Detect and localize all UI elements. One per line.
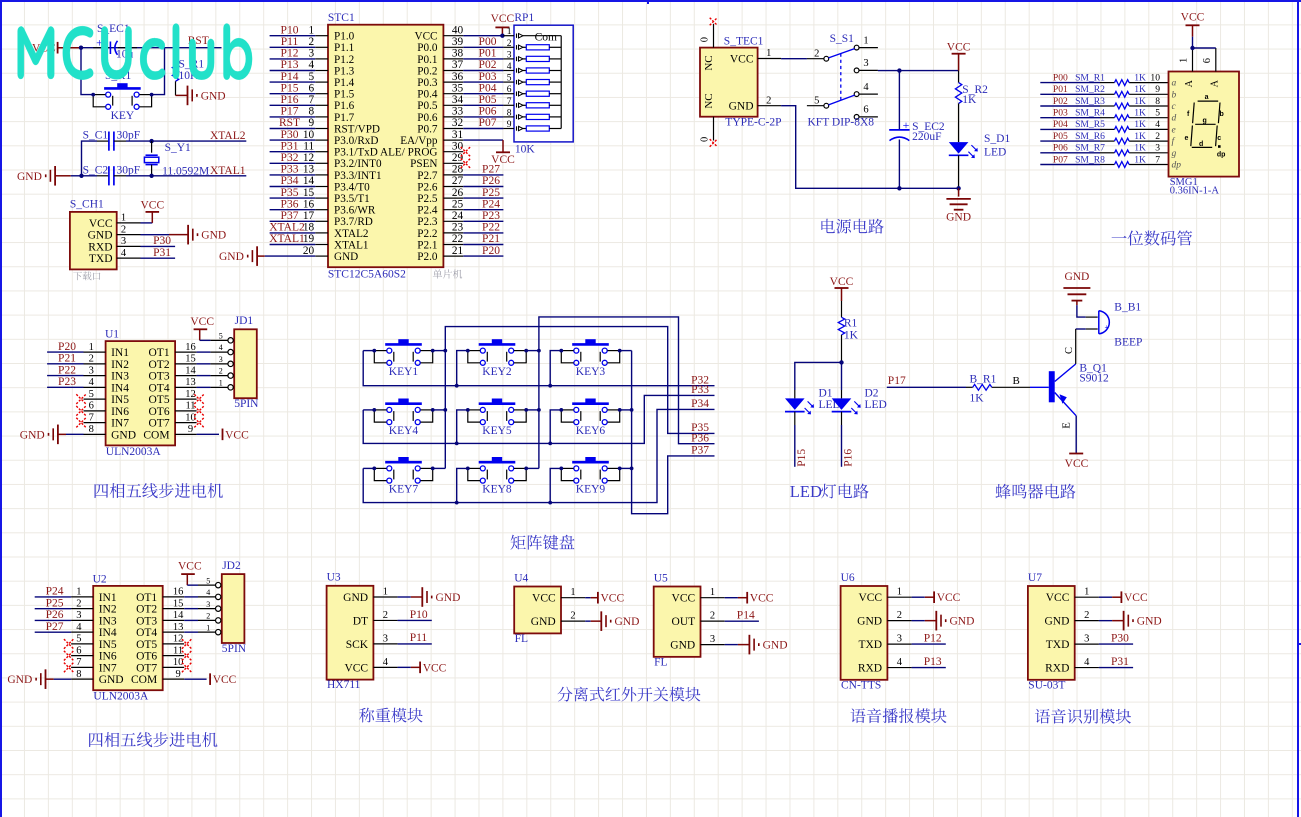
svg-text:GND: GND	[615, 616, 640, 628]
svg-text:VCC: VCC	[178, 561, 202, 573]
svg-text:P3.3/INT1: P3.3/INT1	[334, 170, 382, 182]
label danpianji	[433, 269, 462, 278]
svg-text:P1.0: P1.0	[334, 31, 355, 43]
svg-text:GND: GND	[343, 592, 368, 604]
net label XTAL1	[269, 233, 305, 245]
svg-text:4: 4	[219, 343, 223, 352]
wire XTAL2	[126, 140, 246, 142]
connector JD2 pins	[198, 576, 221, 635]
svg-text:dp: dp	[1217, 151, 1226, 158]
svg-text:P31: P31	[153, 247, 171, 259]
svg-text:4: 4	[863, 82, 869, 93]
svg-text:3: 3	[76, 610, 81, 621]
wire STC pin 2	[270, 46, 316, 48]
ground GND (U6 pin2)	[912, 611, 975, 631]
wire U1 in4	[47, 386, 83, 388]
net label P31	[281, 140, 299, 152]
ground GND (U2)	[7, 669, 53, 689]
svg-text:39: 39	[452, 36, 464, 48]
svg-text:OT4: OT4	[149, 382, 170, 394]
svg-text:22: 22	[452, 233, 464, 245]
wire STC pin 12	[270, 162, 316, 164]
capacitor S_C1 30pF	[83, 130, 141, 151]
net label P02	[479, 59, 497, 71]
svg-text:XTAL2: XTAL2	[269, 222, 305, 234]
svg-text:P1.7: P1.7	[334, 112, 355, 124]
svg-text:c: c	[1217, 135, 1221, 142]
svg-text:38: 38	[452, 48, 464, 60]
svg-text:6: 6	[863, 105, 868, 116]
wire U7 pin3	[1099, 643, 1133, 645]
wire U2 in1	[35, 596, 71, 598]
svg-text:GND: GND	[7, 674, 32, 686]
svg-text:2: 2	[219, 367, 223, 376]
svg-text:1K: 1K	[1134, 96, 1146, 107]
svg-text:P10: P10	[410, 609, 428, 621]
wire U7 pin4	[1099, 667, 1133, 669]
svg-text:1: 1	[897, 587, 902, 598]
svg-text:7: 7	[507, 97, 512, 107]
net label P21	[58, 353, 76, 365]
svg-text:VCC: VCC	[225, 429, 249, 441]
svg-text:SM_R2: SM_R2	[1075, 84, 1105, 95]
module U3 pins	[343, 587, 397, 675]
svg-text:RXD: RXD	[858, 662, 882, 674]
svg-text:OT5: OT5	[136, 639, 157, 651]
svg-text:5: 5	[507, 74, 512, 84]
wire P30	[141, 245, 176, 247]
no-connect pin 29	[461, 159, 471, 169]
svg-text:7: 7	[89, 412, 94, 423]
module U6 pins	[857, 587, 911, 675]
svg-text:4: 4	[897, 657, 903, 668]
svg-text:1K: 1K	[962, 94, 977, 106]
net label P23	[482, 210, 500, 222]
no-connect U1 pin 5	[76, 394, 86, 404]
label xiazaikou	[73, 272, 100, 281]
svg-text:6: 6	[89, 401, 94, 412]
wire STC pin 13	[270, 174, 316, 176]
module U5 box	[654, 572, 701, 656]
svg-text:SM_R5: SM_R5	[1075, 119, 1105, 130]
svg-text:5PIN: 5PIN	[234, 398, 259, 410]
svg-text:KEY2: KEY2	[482, 366, 512, 378]
net label P07 (seg)	[1053, 154, 1068, 165]
svg-text:13: 13	[185, 377, 196, 388]
svg-text:30: 30	[452, 140, 464, 152]
net label P11	[281, 36, 299, 48]
title dianyuandianlu	[821, 219, 883, 234]
power VCC (power circuit)	[947, 42, 971, 71]
svg-text:1: 1	[507, 27, 512, 37]
display SMG1 top pins	[1179, 48, 1221, 87]
net label P06 (seg)	[1053, 143, 1068, 154]
ic U1 pins	[84, 342, 197, 441]
diode D1 LED	[785, 388, 841, 415]
svg-text:1: 1	[710, 587, 715, 598]
resistor SM_R6 1K	[1075, 131, 1146, 144]
svg-text:IN4: IN4	[111, 382, 129, 394]
svg-text:1: 1	[219, 378, 223, 387]
power VCC (S_CH1)	[140, 200, 164, 223]
svg-text:COM: COM	[143, 429, 169, 441]
power VCC (U5 pin1)	[725, 592, 774, 605]
wire STC pin 37	[463, 70, 503, 72]
svg-text:b: b	[1172, 90, 1177, 100]
wire STC pin 10	[270, 139, 316, 141]
net label P00 (seg)	[1053, 72, 1068, 83]
net label P33	[281, 164, 299, 176]
svg-text:P31: P31	[281, 140, 299, 152]
sheet border left	[0, 0, 2, 817]
svg-text:P1.3: P1.3	[334, 65, 355, 77]
svg-text:31: 31	[452, 129, 463, 141]
no-connect U2 pin 5	[64, 639, 74, 649]
svg-text:P22: P22	[58, 364, 76, 376]
svg-text:23: 23	[452, 222, 464, 234]
no-connect U2 pin 11	[182, 651, 192, 661]
wire seg row dp	[1040, 164, 1168, 166]
connector S_TEC1 box	[700, 36, 764, 117]
label CN-TTS	[841, 679, 881, 691]
net label P37	[281, 210, 299, 222]
svg-text:1: 1	[766, 48, 771, 59]
svg-text:3: 3	[710, 634, 715, 645]
svg-text:P3.0/RxD: P3.0/RxD	[334, 135, 378, 147]
svg-text:IN1: IN1	[111, 347, 129, 359]
node col1-k4	[443, 408, 447, 412]
svg-text:RXD: RXD	[1045, 662, 1069, 674]
svg-text:LED: LED	[984, 146, 1006, 158]
wire STC pin 11	[270, 151, 316, 153]
svg-text:P0.2: P0.2	[417, 65, 437, 77]
svg-text:1K: 1K	[1134, 119, 1146, 130]
svg-text:GND: GND	[950, 616, 975, 628]
svg-text:33: 33	[452, 106, 464, 118]
wire U2 gnd	[54, 678, 72, 680]
svg-text:KEY9: KEY9	[576, 484, 606, 496]
svg-text:P01: P01	[479, 48, 497, 60]
net label P27	[46, 621, 64, 633]
wire U2 ot1	[184, 596, 198, 598]
power VCC (EA)	[491, 140, 515, 166]
power VCC (JD1)	[190, 316, 214, 341]
sheet border right	[1297, 0, 1299, 817]
svg-text:d: d	[1199, 141, 1203, 148]
svg-text:D1: D1	[819, 388, 833, 400]
svg-text:5: 5	[1155, 108, 1160, 119]
module U7 pins	[1044, 587, 1098, 675]
svg-text:P3.2/INT0: P3.2/INT0	[334, 158, 382, 170]
net label P34	[691, 398, 709, 410]
svg-text:1K: 1K	[970, 392, 985, 404]
svg-text:2: 2	[710, 611, 715, 622]
svg-text:OT7: OT7	[136, 662, 157, 674]
wire STC pin 39	[463, 46, 503, 48]
no-connect U2 pin 6	[64, 651, 74, 661]
net label XTAL1	[210, 165, 246, 177]
net label P37	[691, 445, 709, 457]
pin number 9 (SMG1)	[1155, 84, 1160, 95]
svg-text:P1.2: P1.2	[334, 54, 354, 66]
svg-text:STC1: STC1	[328, 12, 355, 24]
svg-text:P3.5/T1: P3.5/T1	[334, 193, 370, 205]
net label P35	[691, 422, 709, 434]
svg-text:e: e	[1172, 125, 1176, 135]
svg-text:KEY5: KEY5	[482, 425, 512, 437]
wire STC pin 25	[463, 209, 503, 211]
module U7 box	[1028, 572, 1075, 680]
wire TEC-VCC to S1	[781, 58, 807, 60]
pin number 10 (SMG1)	[1150, 72, 1160, 83]
switch S_S1	[807, 33, 878, 119]
capacitor S_C2 30pF	[82, 165, 141, 186]
svg-text:VCC: VCC	[344, 662, 368, 674]
svg-text:U3: U3	[327, 572, 341, 584]
no-connect pin 30	[461, 147, 471, 157]
wire row bus P34	[363, 409, 714, 502]
svg-text:OT4: OT4	[136, 627, 157, 639]
net label P25	[482, 187, 500, 199]
svg-text:SM_R8: SM_R8	[1075, 154, 1105, 165]
net label P17	[281, 106, 299, 118]
wire STC pin 22	[463, 244, 503, 246]
svg-text:OT2: OT2	[149, 359, 170, 371]
svg-text:OT6: OT6	[149, 406, 170, 418]
svg-text:8: 8	[1155, 96, 1160, 107]
svg-text:SM_R3: SM_R3	[1075, 96, 1105, 107]
svg-text:5: 5	[76, 634, 81, 645]
svg-text:VCC: VCC	[213, 674, 237, 686]
svg-text:P25: P25	[46, 597, 64, 609]
label ULN2003A (U1)	[106, 446, 162, 458]
svg-text:2: 2	[309, 36, 315, 48]
net label P04 (seg)	[1053, 119, 1068, 130]
no-connect U1 pin 10	[194, 418, 204, 428]
label KFT DIP-8X8	[808, 117, 875, 129]
node crystal-gnd	[79, 174, 83, 178]
svg-text:1: 1	[121, 213, 126, 224]
svg-text:S_C2: S_C2	[83, 165, 109, 177]
svg-text:STC12C5A60S2: STC12C5A60S2	[328, 269, 406, 281]
svg-text:VCC: VCC	[1124, 592, 1148, 604]
net label P16	[843, 449, 855, 467]
svg-text:P1.6: P1.6	[334, 100, 355, 112]
wire seg row b	[1040, 93, 1168, 95]
svg-text:28: 28	[452, 164, 464, 176]
svg-text:P11: P11	[281, 36, 299, 48]
net label P13	[281, 59, 299, 71]
wire col bus P37	[620, 351, 715, 514]
svg-text:P05: P05	[479, 94, 497, 106]
no-connect U1 pin 6	[76, 406, 86, 416]
svg-text:A: A	[1210, 79, 1221, 87]
svg-text:9: 9	[175, 669, 180, 680]
power VCC (U1 com)	[197, 429, 249, 442]
svg-text:g: g	[1172, 149, 1177, 159]
svg-text:32: 32	[452, 117, 464, 129]
svg-text:P36: P36	[281, 198, 299, 210]
svg-text:FL: FL	[654, 656, 667, 668]
wire U2 ot4	[184, 631, 198, 633]
svg-text:S_S1: S_S1	[830, 33, 855, 45]
label 5PIN (JD1)	[234, 398, 259, 410]
svg-text:2: 2	[1155, 131, 1160, 142]
svg-text:10: 10	[1150, 72, 1160, 83]
svg-text:P0.7: P0.7	[417, 123, 438, 135]
svg-text:3: 3	[309, 48, 315, 60]
svg-text:5: 5	[219, 331, 223, 340]
node power-bot2	[956, 186, 960, 190]
svg-text:D2: D2	[865, 388, 879, 400]
svg-text:P0.1: P0.1	[417, 54, 437, 66]
net label P31	[1111, 656, 1129, 668]
svg-text:VCC: VCC	[190, 316, 214, 328]
title fengmingqidianlu	[995, 484, 1075, 499]
mcu STC1 pins	[303, 24, 464, 263]
pin number 2 (SMG1)	[1155, 131, 1160, 142]
node bus2-k5	[455, 442, 459, 446]
logo MCUclub	[18, 23, 253, 79]
svg-text:VCC: VCC	[491, 13, 515, 25]
node crystal-top	[149, 139, 153, 143]
wire STC pin 34	[463, 104, 503, 106]
ground GND (power)	[946, 188, 971, 223]
svg-text:S_C1: S_C1	[83, 130, 109, 142]
pin label B	[1013, 375, 1020, 387]
svg-text:E: E	[1061, 422, 1072, 428]
svg-text:1: 1	[1084, 587, 1089, 598]
svg-text:16: 16	[173, 587, 184, 598]
node col3-k9	[630, 467, 634, 471]
net label P00	[479, 36, 497, 48]
label 5PIN (JD2)	[222, 643, 247, 655]
no-connect U1 pin 7	[76, 418, 86, 428]
svg-text:11: 11	[303, 140, 314, 152]
title sixiangwuxian-1	[95, 483, 223, 498]
net label P10	[410, 609, 428, 621]
wire STC pin 7	[270, 104, 316, 106]
net label P05 (seg)	[1053, 131, 1068, 142]
wire U2 in3	[35, 619, 71, 621]
wire STC pin 20	[265, 255, 316, 257]
pin label C	[1064, 347, 1075, 354]
wire STC pin 24	[463, 220, 503, 222]
svg-text:1K: 1K	[1134, 72, 1146, 83]
label SMG1	[1170, 177, 1198, 188]
svg-text:2: 2	[1084, 610, 1089, 621]
svg-text:P2.7: P2.7	[417, 170, 438, 182]
wire STC pin 6	[270, 93, 316, 95]
label HX711	[327, 679, 361, 691]
svg-text:P23: P23	[482, 210, 500, 222]
module U4 box	[514, 572, 561, 633]
svg-text:2: 2	[206, 612, 210, 621]
svg-text:GND: GND	[20, 429, 45, 441]
svg-text:GND: GND	[531, 616, 556, 628]
wire STC pin 28	[463, 174, 503, 176]
svg-text:9: 9	[1155, 84, 1160, 95]
net label P26	[46, 609, 64, 621]
net label P07	[479, 117, 497, 129]
svg-text:IN7: IN7	[111, 418, 129, 430]
svg-text:1K: 1K	[1134, 143, 1146, 154]
svg-text:ULN2003A: ULN2003A	[93, 691, 149, 703]
svg-text:P11: P11	[410, 632, 428, 644]
switch KEY	[91, 70, 153, 122]
svg-text:P33: P33	[691, 384, 709, 396]
svg-text:0.36IN-1-A: 0.36IN-1-A	[1170, 186, 1220, 197]
ground GND (reset)	[188, 86, 226, 106]
title yuyinbobao	[850, 708, 946, 723]
wire P16	[841, 412, 843, 467]
svg-text:XTAL1: XTAL1	[269, 233, 305, 245]
svg-text:SM_R1: SM_R1	[1075, 72, 1105, 83]
svg-text:d: d	[1172, 114, 1177, 124]
capacitor S_EC2 220uF	[889, 71, 945, 189]
title juzhenjianpan	[510, 535, 574, 550]
svg-text:S9012: S9012	[1079, 373, 1109, 385]
resistor SM_R8 1K	[1075, 154, 1146, 167]
wire reset-left	[81, 48, 93, 95]
svg-text:EA/Vpp: EA/Vpp	[400, 135, 438, 147]
svg-text:2: 2	[897, 610, 902, 621]
wire col bus P35	[433, 327, 715, 469]
svg-text:3: 3	[897, 634, 902, 645]
pin label E	[1061, 422, 1072, 428]
wire seg row a	[1040, 82, 1168, 84]
wire U6 pin3	[912, 643, 946, 645]
svg-text:1K: 1K	[1134, 154, 1146, 165]
svg-text:HX711: HX711	[327, 679, 361, 691]
svg-text:GND: GND	[763, 640, 788, 652]
pin number 4 (SMG1)	[1155, 119, 1160, 130]
net label P22	[482, 222, 500, 234]
svg-text:dp: dp	[1172, 161, 1182, 171]
svg-text:P03: P03	[479, 71, 497, 83]
resistor SM_R2 1K	[1075, 84, 1146, 97]
svg-text:P1.4: P1.4	[334, 77, 355, 89]
svg-text:25: 25	[452, 198, 464, 210]
svg-text:GND: GND	[729, 101, 754, 113]
svg-text:1: 1	[863, 35, 868, 46]
svg-text:P10: P10	[281, 24, 299, 36]
svg-text:3: 3	[1084, 634, 1089, 645]
svg-text:XTAL1: XTAL1	[334, 239, 369, 251]
svg-text:3: 3	[1155, 143, 1160, 154]
svg-text:3: 3	[507, 50, 512, 60]
svg-text:P21: P21	[482, 233, 500, 245]
svg-text:VCC: VCC	[423, 662, 447, 674]
wire STC pin 33	[463, 116, 503, 118]
svg-text:9: 9	[309, 117, 315, 129]
title yuyinshibie	[1035, 709, 1131, 724]
svg-text:IN1: IN1	[99, 592, 117, 604]
net label P32	[281, 152, 299, 164]
ground GND (U7 pin2)	[1099, 611, 1162, 631]
svg-text:0: 0	[700, 37, 711, 42]
svg-text:12: 12	[185, 389, 196, 400]
power VCC (JD2)	[178, 561, 202, 586]
wire STC pin 8	[270, 116, 316, 118]
wire row bus P32	[363, 351, 714, 386]
svg-text:P14: P14	[737, 609, 755, 621]
svg-text:P3.4/T0: P3.4/T0	[334, 181, 370, 193]
svg-text:4: 4	[206, 588, 210, 597]
svg-text:GND: GND	[946, 211, 971, 223]
wire col bus P36	[526, 317, 714, 469]
crystal S_Y1 11.0592M	[144, 141, 209, 177]
